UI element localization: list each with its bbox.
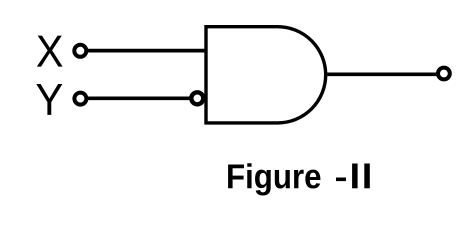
node X label: [37, 36, 63, 67]
AND gate U1 body: [206, 27, 326, 123]
wire output: [325, 73, 439, 77]
node Y label: [36, 84, 62, 115]
caption glyph I (second): [364, 164, 370, 189]
input terminal Y (open circle): [74, 93, 86, 105]
output terminal (open circle): [438, 68, 450, 80]
wire X input: [87, 49, 207, 53]
caption word "Figure": [228, 163, 320, 195]
input terminal X (open circle): [74, 45, 86, 57]
caption glyph I (first): [352, 164, 358, 189]
wire Y input: [86, 96, 190, 100]
caption hyphen of "-II": [336, 178, 346, 182]
inversion bubble on Y input: [191, 92, 203, 104]
